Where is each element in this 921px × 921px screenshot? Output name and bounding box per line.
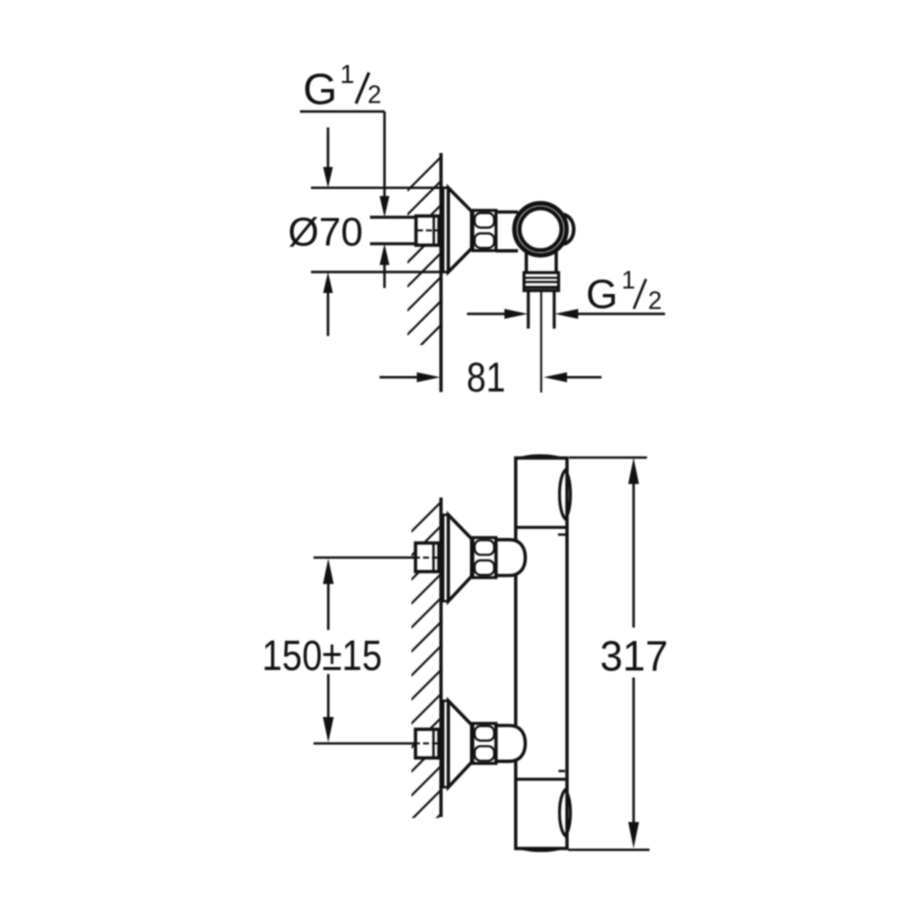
label G 1/2 right (586, 267, 662, 317)
outlet centerline (540, 291, 542, 393)
union nut (473, 210, 496, 250)
bottom cap joint line (516, 778, 567, 781)
317 extension top (569, 456, 647, 458)
dim arrow up at x=384.5 (G1/2 lower) (383, 265, 386, 288)
dim arrow up at x=328 (O70 lower) (327, 293, 330, 336)
connecting tube (496, 210, 518, 213)
leader underline of G 1/2 (300, 110, 385, 112)
supply hex square lower (416, 729, 439, 758)
right side cap (564, 214, 574, 244)
supply pipe white gap (370, 219, 441, 243)
svg-text:1: 1 (622, 267, 636, 295)
inlet dome upper (496, 540, 525, 576)
escutcheon base upper (443, 515, 448, 601)
extension line 150 upper (314, 556, 415, 558)
valve body bar (516, 458, 567, 849)
svg-text:G: G (586, 271, 618, 317)
wall hatching top view (405, 157, 441, 385)
svg-text:1: 1 (340, 59, 354, 89)
label G 1/2 top-left (303, 59, 381, 114)
svg-text:2: 2 (368, 81, 382, 109)
escutcheon base (443, 188, 448, 272)
union nut lower (473, 723, 496, 763)
wall line bottom view (439, 498, 442, 818)
escutcheon cone upper (448, 515, 471, 601)
escutcheon cone lower (448, 701, 471, 787)
dim arrow down at x=328 (O70 upper) (327, 128, 330, 170)
svg-text:150±15: 150±15 (262, 632, 382, 680)
G1/2 dim right : left segment (467, 313, 519, 316)
extension line O70 top (311, 187, 448, 189)
outlet pipe (527, 291, 530, 329)
svg-text:2: 2 (648, 287, 662, 315)
valve body circle outer (515, 203, 567, 255)
supply pipe in wall (370, 216, 416, 219)
escutcheon cone (448, 188, 471, 272)
supply hex end square (416, 216, 439, 245)
centerline in square (417, 229, 438, 231)
fraction slash top-left (356, 73, 369, 104)
bottom lens (560, 790, 571, 836)
extension line 150 lower (314, 742, 415, 744)
317 extension bottom (568, 849, 650, 851)
inlet dome lower (496, 726, 525, 762)
wall hatching bottom view (405, 502, 441, 850)
escutcheon base lower (443, 701, 448, 787)
valve body circle inner (520, 208, 562, 250)
G1/2 dim right : right segment (563, 313, 665, 316)
top lens (560, 470, 571, 518)
union nut upper (473, 538, 496, 578)
supply hex square upper (416, 543, 439, 572)
top cap joint line (516, 526, 567, 529)
top cap arc (521, 456, 560, 458)
317 dim vertical with arrows (632, 482, 635, 628)
outlet collar (524, 273, 559, 291)
neck below circle (525, 251, 528, 273)
svg-text:G: G (303, 65, 337, 114)
bottom cap arc (522, 849, 560, 851)
svg-text:81: 81 (467, 354, 506, 401)
leader vertical with down arrow to pipe (383, 112, 386, 200)
extension line O70 bottom (311, 271, 448, 273)
150 dim vertical with arrows (327, 583, 330, 630)
81 dim (380, 376, 433, 379)
svg-text:317: 317 (600, 633, 668, 681)
wall line top view (439, 153, 442, 392)
svg-text:Ø70: Ø70 (288, 211, 363, 255)
